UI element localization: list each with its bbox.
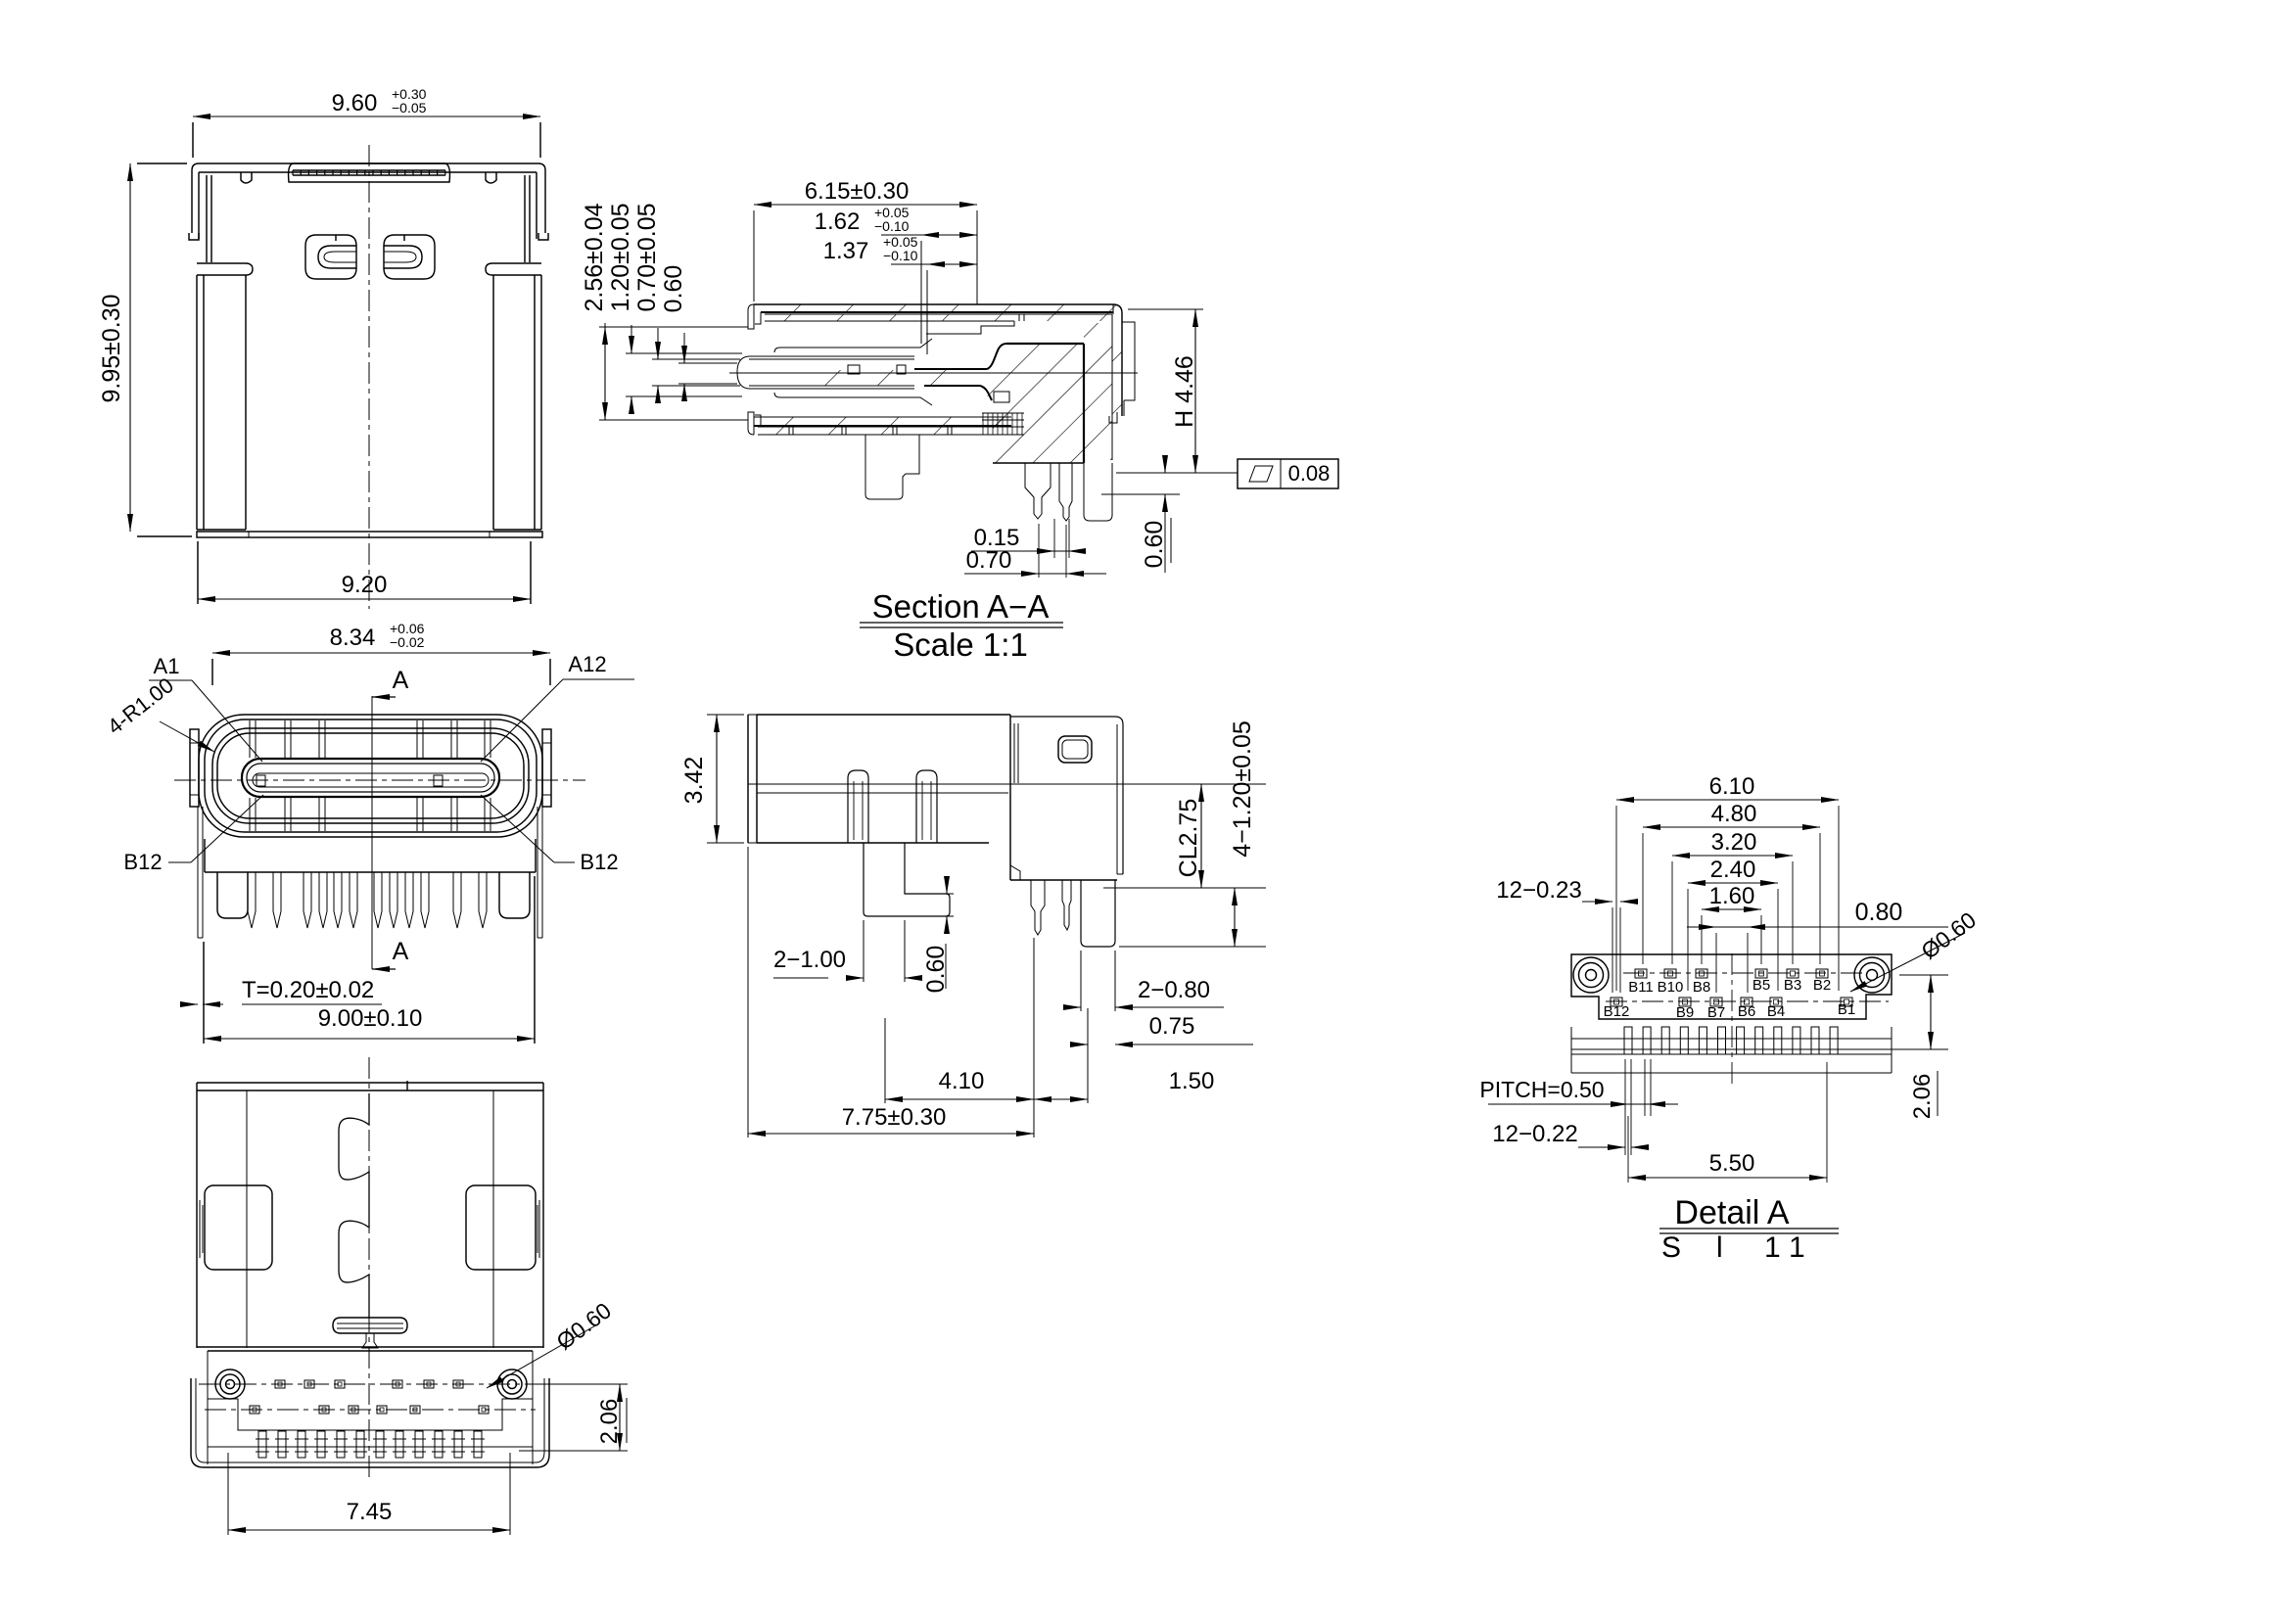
svg-text:2−1.00: 2−1.00 <box>773 947 846 973</box>
svg-text:9.60: 9.60 <box>332 90 378 116</box>
svg-text:0.60: 0.60 <box>660 265 687 313</box>
svg-text:2.56±0.04: 2.56±0.04 <box>581 203 608 311</box>
svg-text:A12: A12 <box>568 652 606 676</box>
svg-text:B11: B11 <box>1628 979 1654 996</box>
svg-text:B5: B5 <box>1753 977 1770 994</box>
svg-text:B7: B7 <box>1707 1004 1725 1021</box>
svg-text:Section A−A: Section A−A <box>872 588 1050 625</box>
svg-text:12−0.23: 12−0.23 <box>1496 877 1581 904</box>
svg-text:4−1.20±0.05: 4−1.20±0.05 <box>1229 720 1256 858</box>
svg-text:B9: B9 <box>1676 1004 1694 1021</box>
svg-text:B2: B2 <box>1813 977 1831 994</box>
svg-text:−0.10: −0.10 <box>874 218 910 234</box>
svg-text:B10: B10 <box>1658 979 1684 996</box>
svg-text:1.37: 1.37 <box>823 238 869 264</box>
svg-text:7.45: 7.45 <box>347 1499 393 1525</box>
svg-text:B4: B4 <box>1767 1003 1785 1020</box>
svg-text:B12: B12 <box>123 850 162 874</box>
svg-text:0.70±0.05: 0.70±0.05 <box>633 203 661 311</box>
svg-text:Scale 1:1: Scale 1:1 <box>893 626 1028 663</box>
svg-text:B1: B1 <box>1838 1001 1855 1018</box>
svg-text:B12: B12 <box>1604 1003 1630 1020</box>
svg-text:1.50: 1.50 <box>1169 1068 1215 1094</box>
svg-text:0.70: 0.70 <box>966 547 1012 574</box>
svg-text:PITCH=0.50: PITCH=0.50 <box>1479 1077 1604 1102</box>
svg-text:A: A <box>393 667 409 694</box>
svg-text:9.95±0.30: 9.95±0.30 <box>98 294 125 402</box>
svg-text:0.75: 0.75 <box>1149 1013 1195 1040</box>
svg-text:6.15±0.30: 6.15±0.30 <box>805 178 910 205</box>
svg-text:B8: B8 <box>1693 979 1710 996</box>
svg-text:4.80: 4.80 <box>1711 801 1757 827</box>
svg-text:S: S <box>1661 1231 1681 1264</box>
svg-text:l: l <box>1716 1231 1723 1264</box>
svg-text:H 4.46: H 4.46 <box>1171 355 1198 428</box>
svg-text:B6: B6 <box>1738 1003 1755 1020</box>
svg-text:2−0.80: 2−0.80 <box>1138 977 1210 1003</box>
svg-text:Detail A: Detail A <box>1674 1194 1789 1231</box>
svg-text:3.20: 3.20 <box>1711 829 1757 856</box>
svg-text:0.08: 0.08 <box>1288 461 1331 486</box>
svg-text:0.80: 0.80 <box>1855 899 1903 926</box>
svg-text:6.10: 6.10 <box>1709 773 1755 800</box>
svg-text:3.42: 3.42 <box>680 757 708 805</box>
svg-text:T=0.20±0.02: T=0.20±0.02 <box>242 977 374 1003</box>
svg-text:2.40: 2.40 <box>1710 857 1756 883</box>
svg-text:1.60: 1.60 <box>1709 883 1755 909</box>
svg-text:−0.05: −0.05 <box>392 100 427 116</box>
svg-text:1.20±0.05: 1.20±0.05 <box>607 203 634 311</box>
svg-text:9.20: 9.20 <box>342 572 388 598</box>
svg-text:−0.10: −0.10 <box>883 248 918 263</box>
svg-text:5.50: 5.50 <box>1709 1150 1755 1177</box>
svg-text:9.00±0.10: 9.00±0.10 <box>318 1005 423 1032</box>
svg-text:A: A <box>393 938 409 965</box>
svg-text:2.06: 2.06 <box>1909 1074 1936 1120</box>
svg-text:1.62: 1.62 <box>815 209 861 235</box>
svg-text:CL2.75: CL2.75 <box>1175 799 1202 878</box>
svg-text:4.10: 4.10 <box>939 1068 985 1094</box>
svg-text:7.75±0.30: 7.75±0.30 <box>842 1104 947 1131</box>
svg-text:0.60: 0.60 <box>1141 521 1168 569</box>
svg-text:B3: B3 <box>1784 977 1801 994</box>
svg-text:B12: B12 <box>580 850 618 874</box>
svg-text:−0.02: −0.02 <box>390 634 425 650</box>
svg-text:12−0.22: 12−0.22 <box>1492 1121 1577 1147</box>
svg-text:1 1: 1 1 <box>1764 1231 1805 1264</box>
svg-text:2.06: 2.06 <box>596 1399 623 1445</box>
svg-text:A1: A1 <box>154 654 180 678</box>
svg-text:8.34: 8.34 <box>330 625 376 651</box>
